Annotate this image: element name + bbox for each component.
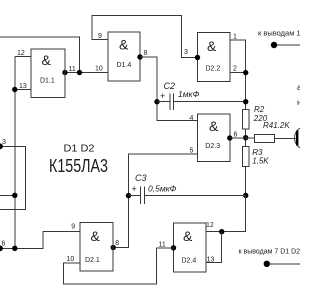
- svg-text:D2.3: D2.3: [205, 143, 220, 150]
- node junction pins 12/13: [219, 229, 224, 234]
- wire C2 left plate stub: [157, 101, 170, 103]
- wire top horizontal feedback net: [0, 37, 80, 73]
- node junction C3 net: [243, 193, 248, 198]
- svg-text:13: 13: [207, 257, 215, 264]
- svg-text:8: 8: [144, 50, 148, 57]
- node junction pin2: [243, 70, 248, 75]
- wire pin12 stub D1.1: [15, 56, 31, 58]
- node cropped pin3 terminal: [0, 143, 3, 149]
- svg-text:D1 D2: D1 D2: [64, 144, 95, 155]
- op-amp gate D1.1: [31, 49, 65, 98]
- svg-text:&: &: [42, 52, 52, 68]
- svg-text:10: 10: [67, 256, 75, 263]
- svg-text:3: 3: [184, 49, 188, 56]
- node D2.2 output pin 3: [195, 55, 200, 60]
- op-amp gate D2.3: [198, 114, 230, 161]
- svg-text:13: 13: [19, 83, 27, 90]
- node junction left input bus bottom: [12, 246, 17, 251]
- svg-text:1: 1: [233, 34, 237, 41]
- wire D2.3 output to R4: [230, 137, 255, 139]
- svg-text:5: 5: [190, 147, 194, 154]
- resistor R2: [242, 110, 249, 129]
- svg-text:R2: R2: [254, 105, 265, 114]
- wire D2.4 pin11 to bottom run: [64, 248, 174, 284]
- node junction left stub: [12, 193, 17, 198]
- wire D2.2 pin1: [230, 40, 246, 110]
- svg-text:9: 9: [98, 33, 102, 40]
- node junction C2 net R2 top: [243, 99, 248, 104]
- node junction C3 left: [126, 193, 131, 198]
- svg-text:К155ЛА3: К155ЛА3: [49, 156, 108, 176]
- op-amp gate D1.4: [108, 32, 140, 81]
- wire Vcc terminal top right: [274, 44, 300, 46]
- wire D2.3 pin5 from C3 node: [113, 154, 197, 248]
- wire D1.4 output to C2: [140, 57, 198, 121]
- capacitor C2 plates: [169, 93, 171, 110]
- svg-text:&: &: [207, 38, 217, 54]
- svg-text:12: 12: [17, 50, 25, 57]
- svg-text:а: а: [297, 83, 300, 92]
- node junction R2/R3/R4: [243, 135, 248, 140]
- svg-text:8: 8: [115, 240, 119, 247]
- transistor VT1 partial circle: [295, 127, 318, 150]
- op-amp gate D2.2: [198, 33, 231, 82]
- wire D2.1 pin9: [0, 232, 80, 249]
- svg-text:&: &: [119, 37, 129, 53]
- op-amp gate D2.1: [80, 223, 113, 271]
- wire D2.2 pin2: [230, 72, 246, 74]
- svg-text:D1.4: D1.4: [117, 62, 132, 69]
- svg-text:C3: C3: [135, 173, 147, 183]
- wire R3 net down to pin12 run: [206, 196, 246, 232]
- svg-text:1мкФ: 1мкФ: [178, 89, 200, 99]
- wire cropped gate loop left edge: [0, 146, 26, 209]
- capacitor C3 plates: [140, 187, 142, 205]
- wire R3 bottom vertical: [245, 167, 247, 232]
- wire D1.1 output to D1.4 pin10: [65, 72, 108, 74]
- wire pin13 stub D1.1: [15, 89, 31, 91]
- node D2.3 output pin 6: [227, 135, 232, 140]
- svg-text:3: 3: [2, 139, 6, 146]
- resistor R4: [255, 135, 275, 143]
- node junction at C2 left: [154, 99, 159, 104]
- node D2.1 output pin 8: [111, 245, 116, 250]
- svg-text:2: 2: [233, 66, 237, 73]
- svg-text:D1.1: D1.1: [40, 78, 55, 85]
- wire left stub mid: [0, 194, 15, 196]
- svg-text:н: н: [297, 98, 300, 107]
- svg-text:1,5K: 1,5K: [252, 156, 269, 165]
- resistor R3: [242, 147, 249, 167]
- svg-text:к выводам 7 D1 D2: к выводам 7 D1 D2: [239, 249, 301, 256]
- svg-text:12: 12: [206, 222, 214, 229]
- svg-text:C2: C2: [164, 81, 176, 91]
- svg-text:+: +: [132, 184, 137, 194]
- svg-text:+: +: [160, 91, 165, 101]
- wire C2 right plate to R2 net: [174, 101, 246, 103]
- node Vcc terminal dot: [271, 42, 277, 48]
- wire C3 right plate to R3 node: [144, 195, 245, 197]
- svg-text:к выводам 14: к выводам 14: [258, 29, 300, 38]
- node GND terminal dot: [264, 261, 270, 267]
- svg-text:4: 4: [190, 115, 194, 122]
- svg-text:&: &: [209, 118, 219, 134]
- svg-text:D2.1: D2.1: [85, 257, 100, 264]
- svg-text:R41.2K: R41.2K: [263, 121, 290, 130]
- wire GND terminal bottom right: [267, 263, 300, 265]
- node junction at 79,72: [77, 70, 82, 75]
- node junction pin13: [12, 87, 17, 92]
- wire R2 bottom: [245, 129, 247, 146]
- node cropped terminal left bottom: [0, 245, 3, 251]
- wire pin13 link D2.4: [206, 232, 222, 263]
- wire D2.2 out to D1.4 pin9 top run: [92, 16, 198, 58]
- svg-text:9: 9: [71, 223, 75, 230]
- node D1.1 output pin 11: [62, 70, 67, 75]
- svg-text:10: 10: [95, 66, 103, 73]
- node D1.4 output pin 8: [137, 54, 142, 59]
- svg-text:6: 6: [234, 132, 238, 139]
- svg-text:&: &: [183, 228, 193, 244]
- svg-text:&: &: [91, 228, 101, 244]
- svg-text:11: 11: [69, 66, 76, 73]
- node D2.4 input pin 11: [171, 245, 176, 250]
- wire left input bus vertical: [14, 57, 16, 249]
- wire R4 to transistor: [275, 138, 297, 140]
- wire C3 left plate stub: [129, 195, 141, 197]
- svg-text:6: 6: [2, 241, 6, 248]
- transistor VT1 base bar: [296, 131, 298, 146]
- svg-text:11: 11: [159, 242, 166, 249]
- op-amp gate D2.4: [174, 223, 206, 272]
- svg-text:D2.2: D2.2: [206, 66, 221, 73]
- svg-text:0,5мкФ: 0,5мкФ: [148, 184, 177, 194]
- svg-text:D2.4: D2.4: [182, 258, 197, 265]
